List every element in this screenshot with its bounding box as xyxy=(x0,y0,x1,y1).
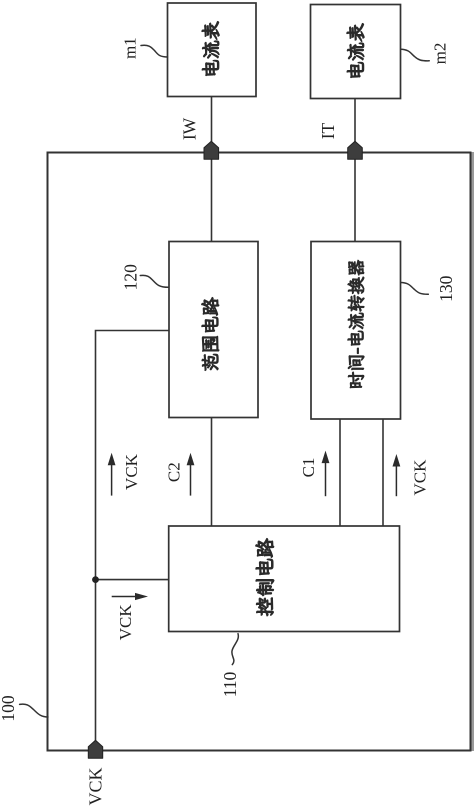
svg-text:VCK: VCK xyxy=(86,767,106,805)
wire C2 box 120 to box 110 xyxy=(211,418,213,527)
arrow VCK into box 110 xyxy=(112,593,148,600)
node junction dot xyxy=(92,576,99,583)
node VCK junction marker xyxy=(88,740,102,758)
arrow VCK upper left xyxy=(108,453,116,496)
svg-text:IW: IW xyxy=(180,117,200,140)
wire C1 box 130 to box 110 xyxy=(339,419,341,526)
arrow C2 xyxy=(187,453,195,496)
leader squiggle m1 xyxy=(141,45,168,57)
arrow C1 xyxy=(322,451,330,497)
wire m2 to node IT to box 130 xyxy=(354,99,356,242)
svg-text:110: 110 xyxy=(220,671,240,697)
node IT junction marker xyxy=(348,141,363,159)
box m1 current meter xyxy=(168,3,257,97)
box 130 time-current converter xyxy=(311,242,401,420)
arrow VCK right xyxy=(393,454,401,496)
svg-text:VCK: VCK xyxy=(411,459,430,496)
svg-text:100: 100 xyxy=(0,695,18,722)
box 120 range circuit xyxy=(169,242,258,418)
box m2 current meter xyxy=(311,5,401,99)
svg-text:VCK: VCK xyxy=(116,604,135,641)
svg-text:C1: C1 xyxy=(299,458,318,478)
wire VCK rail branch to box 110 xyxy=(96,579,169,581)
leader squiggle 130 xyxy=(401,283,429,295)
text meter m1 dianliubiao xyxy=(202,21,219,75)
scan artifact gray band xyxy=(471,152,474,751)
wire box 120 left to VCK rail xyxy=(96,331,170,751)
text box 130 shijian-dianliu zhuanhuanqi xyxy=(348,260,364,388)
svg-text:130: 130 xyxy=(436,275,456,302)
leader squiggle 120 xyxy=(140,275,168,287)
svg-text:m1: m1 xyxy=(121,37,140,59)
wire m1 to node IW to box 120 xyxy=(211,97,213,242)
svg-text:C2: C2 xyxy=(164,462,183,482)
svg-text:120: 120 xyxy=(121,264,141,291)
box 110 control circuit xyxy=(169,526,400,632)
leader squiggle 100 xyxy=(20,704,48,717)
wire VCK box 130 to box 110 xyxy=(382,419,384,526)
box 100 outer chip boundary xyxy=(48,153,471,751)
svg-text:m2: m2 xyxy=(431,43,450,65)
leader squiggle 110 xyxy=(232,634,238,665)
leader squiggle m2 xyxy=(401,49,429,61)
text box 120 fanweidianlu xyxy=(202,297,219,370)
svg-text:VCK: VCK xyxy=(122,453,141,490)
node IW junction marker xyxy=(204,141,219,159)
text meter m2 dianliubiao xyxy=(347,23,364,77)
text box 110 kongzhidianlu xyxy=(256,539,274,616)
svg-text:IT: IT xyxy=(318,122,338,139)
